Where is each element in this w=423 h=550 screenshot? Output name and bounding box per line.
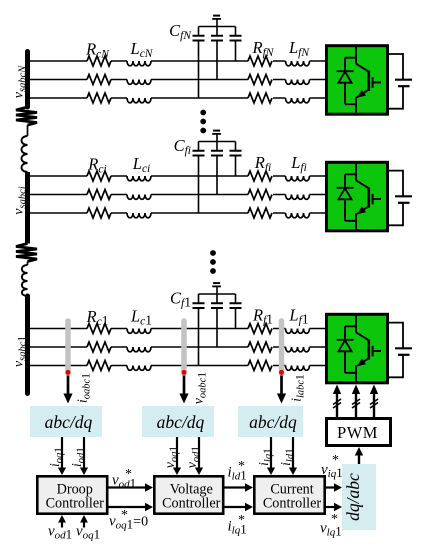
svg-text:abc/dq: abc/dq <box>157 412 205 432</box>
svg-text:Controller: Controller <box>162 496 221 512</box>
svg-text:*: * <box>331 512 338 527</box>
svg-text:Controller: Controller <box>46 496 105 512</box>
svg-text:*: * <box>238 459 245 474</box>
svg-text:*: * <box>332 453 339 468</box>
svg-text:abc/dq: abc/dq <box>249 412 297 432</box>
svg-text:PWM: PWM <box>337 423 378 442</box>
svg-text:dq/abc: dq/abc <box>343 473 363 521</box>
svg-text:*: * <box>238 513 245 528</box>
svg-text:voq1=0: voq1=0 <box>109 514 148 532</box>
svg-text:abc/dq: abc/dq <box>45 412 93 432</box>
svg-text:*: * <box>125 467 132 482</box>
svg-text:*: * <box>121 508 128 523</box>
svg-text:Controller: Controller <box>263 496 322 512</box>
